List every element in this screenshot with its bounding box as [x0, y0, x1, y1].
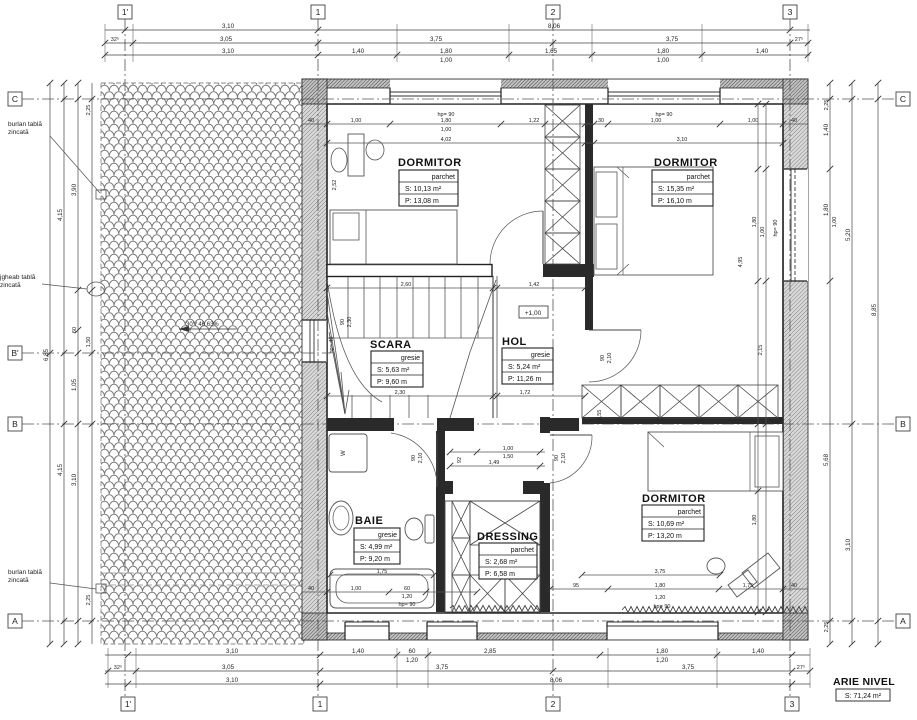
- svg-text:2,25: 2,25: [86, 105, 92, 116]
- grid marker 3 bottom: [785, 697, 799, 711]
- svg-text:B: B: [12, 419, 18, 429]
- svg-text:92: 92: [457, 457, 463, 463]
- shower/washing baie: [329, 434, 367, 472]
- svg-text:hp= 90: hp= 90: [438, 112, 455, 118]
- door baie: [436, 433, 438, 487]
- svg-text:S: 10,69 m²: S: 10,69 m²: [648, 521, 685, 528]
- svg-text:60: 60: [404, 586, 410, 592]
- svg-text:60: 60: [409, 648, 416, 655]
- svg-text:90: 90: [600, 355, 606, 361]
- svg-text:1,72: 1,72: [520, 390, 531, 396]
- gutter jgheab symbol: [87, 282, 105, 296]
- svg-text:1,40: 1,40: [352, 648, 365, 655]
- svg-text:2: 2: [551, 699, 556, 709]
- grid marker C left: [8, 92, 22, 106]
- svg-text:90: 90: [411, 455, 417, 461]
- svg-text:1,00: 1,00: [651, 118, 662, 124]
- grid marker 1 bottom: [313, 697, 327, 711]
- svg-text:40: 40: [308, 586, 314, 592]
- svg-text:90: 90: [554, 455, 560, 461]
- svg-text:burlan tablă: burlan tablă: [8, 569, 42, 576]
- dim row top 2: [105, 42, 810, 44]
- grid marker B right: [896, 417, 910, 431]
- svg-text:1,00: 1,00: [748, 118, 759, 124]
- interior wall scara south / baie north: [327, 418, 394, 431]
- svg-text:8,06: 8,06: [548, 23, 561, 30]
- desk bedroom1: [348, 134, 364, 176]
- grid line 3: [789, 19, 791, 697]
- svg-text:1': 1': [122, 7, 129, 17]
- svg-text:5,68: 5,68: [823, 453, 830, 466]
- dim row top 3: [105, 54, 810, 56]
- svg-text:3,75: 3,75: [655, 569, 666, 575]
- grid marker A left: [8, 614, 22, 628]
- svg-text:1,50: 1,50: [503, 454, 514, 460]
- svg-text:2,15: 2,15: [758, 345, 764, 356]
- svg-text:jgheab tablă: jgheab tablă: [0, 274, 36, 281]
- toilet baie: [425, 515, 434, 543]
- svg-text:zincată: zincată: [8, 577, 29, 584]
- svg-text:1,80: 1,80: [823, 203, 830, 216]
- door bedroom3: [550, 434, 592, 436]
- svg-text:2,60: 2,60: [401, 282, 412, 288]
- svg-text:6,85: 6,85: [43, 348, 50, 361]
- wall inner faces: [327, 103, 783, 105]
- svg-text:hp= 90: hp= 90: [656, 112, 673, 118]
- svg-text:1: 1: [316, 7, 321, 17]
- svg-text:parchet: parchet: [432, 174, 455, 181]
- svg-text:1,05: 1,05: [71, 378, 78, 391]
- svg-text:zincată: zincată: [0, 282, 21, 289]
- window top wall W1: [390, 80, 501, 104]
- svg-text:3,90: 3,90: [71, 183, 78, 196]
- svg-text:1,80: 1,80: [657, 48, 670, 55]
- svg-text:2,30: 2,30: [347, 317, 353, 328]
- svg-text:HOL: HOL: [502, 336, 527, 348]
- svg-text:S: 71,24 m²: S: 71,24 m²: [845, 693, 882, 700]
- svg-text:2,10: 2,10: [418, 453, 424, 464]
- svg-text:95: 95: [573, 583, 579, 589]
- staircase SCARA steps: [327, 277, 496, 418]
- svg-text:3: 3: [788, 7, 793, 17]
- svg-text:B: B: [900, 419, 906, 429]
- svg-text:S: 4,99 m²: S: 4,99 m²: [360, 544, 393, 551]
- wall corner top-left: [302, 79, 327, 104]
- dressing closets: [445, 501, 540, 612]
- interior wall bedroom1 south right part: [543, 264, 594, 277]
- svg-text:32⁵: 32⁵: [111, 36, 119, 43]
- dim row bottom 3: [105, 683, 810, 685]
- svg-text:P: 16,10 m: P: 16,10 m: [658, 198, 692, 205]
- svg-text:5,20: 5,20: [845, 228, 852, 241]
- svg-text:S: 10,13 m²: S: 10,13 m²: [405, 186, 442, 193]
- window left wall W7: [303, 320, 327, 362]
- svg-text:4,15: 4,15: [57, 463, 64, 476]
- svg-text:3,75: 3,75: [682, 664, 695, 671]
- svg-text:1,20: 1,20: [402, 594, 413, 600]
- svg-text:C: C: [900, 94, 906, 104]
- roof eave dashed lines: [101, 572, 304, 574]
- door bedroom2: [589, 329, 641, 331]
- exterior wall top band: [302, 79, 808, 88]
- svg-text:32⁵: 32⁵: [114, 664, 122, 671]
- svg-text:P: 13,08 m: P: 13,08 m: [405, 198, 439, 205]
- svg-text:2,10: 2,10: [561, 453, 567, 464]
- svg-text:1,00: 1,00: [440, 57, 453, 64]
- svg-text:30°/ 46,63%: 30°/ 46,63%: [186, 322, 219, 328]
- grid line A: [22, 620, 896, 622]
- svg-text:parchet: parchet: [678, 509, 701, 516]
- svg-text:40: 40: [308, 118, 314, 124]
- svg-text:1,20: 1,20: [656, 657, 669, 664]
- svg-text:burlan tablă: burlan tablă: [8, 121, 42, 128]
- exterior wall bottom band: [302, 633, 808, 640]
- svg-text:3,55: 3,55: [597, 410, 603, 421]
- bed bedroom3: [648, 432, 783, 491]
- grid line C: [22, 98, 896, 100]
- svg-text:3,10: 3,10: [71, 473, 78, 486]
- roof slope arrow 30deg: [179, 322, 236, 332]
- svg-text:3,10: 3,10: [677, 137, 688, 143]
- interior wall dressing north: [437, 481, 453, 494]
- svg-text:S: 5,24 m²: S: 5,24 m²: [508, 364, 541, 371]
- svg-text:3,10: 3,10: [845, 538, 852, 551]
- dim row bottom 2: [105, 670, 810, 672]
- svg-text:1,40: 1,40: [352, 48, 365, 55]
- dim columns right: [829, 83, 831, 644]
- svg-text:40: 40: [791, 118, 797, 124]
- wall corner top-right: [783, 79, 808, 104]
- dim extension verticals bottom: [108, 648, 810, 688]
- svg-text:3,10: 3,10: [226, 648, 239, 655]
- zigzag insulation bottom-right: [622, 607, 808, 613]
- svg-text:P: 13,20 m: P: 13,20 m: [648, 533, 682, 540]
- svg-text:S: 5,63 m²: S: 5,63 m²: [377, 367, 410, 374]
- svg-text:90: 90: [340, 319, 346, 325]
- grid marker 1 top: [311, 5, 325, 19]
- bed bedroom1: [330, 210, 457, 264]
- svg-text:1,75: 1,75: [377, 569, 388, 575]
- roof hatched area: [101, 83, 304, 644]
- svg-text:1,00: 1,00: [760, 227, 766, 238]
- svg-text:zincată: zincată: [8, 129, 29, 136]
- svg-text:P: 9,20 m: P: 9,20 m: [360, 556, 390, 563]
- svg-text:3,10: 3,10: [226, 677, 239, 684]
- svg-text:3,10: 3,10: [222, 23, 235, 30]
- svg-text:1,49: 1,49: [489, 460, 500, 466]
- grid line 2: [552, 19, 554, 697]
- grid marker 1' bottom: [121, 697, 135, 711]
- svg-text:2: 2: [551, 7, 556, 17]
- exterior wall left: [302, 88, 327, 640]
- dim row bottom 1: [105, 654, 810, 656]
- wardrobe bedroom1 (X cells): [545, 105, 580, 137]
- svg-text:8,06: 8,06: [550, 677, 563, 684]
- svg-text:3,75: 3,75: [666, 36, 679, 43]
- svg-text:3,05: 3,05: [222, 664, 235, 671]
- grid line B: [22, 423, 896, 425]
- grid line 1: [317, 19, 319, 697]
- wall corner bottom-right: [783, 613, 808, 640]
- inner dim corridor: [450, 451, 545, 453]
- inner dim row rooms top: [302, 123, 808, 125]
- grid marker A right: [896, 614, 910, 628]
- svg-text:1,20: 1,20: [406, 657, 419, 664]
- svg-text:4,15: 4,15: [57, 208, 64, 221]
- svg-text:BAIE: BAIE: [355, 515, 383, 527]
- svg-text:1,00: 1,00: [351, 586, 362, 592]
- grid marker 2 bottom: [546, 697, 560, 711]
- exterior wall right: [783, 88, 808, 640]
- svg-text:1,00: 1,00: [441, 127, 452, 133]
- grid marker B' left: [8, 346, 22, 360]
- svg-text:2,10: 2,10: [607, 353, 613, 364]
- svg-text:DORMITOR: DORMITOR: [398, 157, 462, 169]
- svg-text:C: C: [12, 94, 18, 104]
- svg-text:parchet: parchet: [687, 174, 710, 181]
- svg-text:2,85: 2,85: [484, 648, 497, 655]
- svg-text:30: 30: [598, 118, 604, 124]
- svg-text:1,00: 1,00: [832, 217, 838, 228]
- interior wall between bedrooms vertical: [585, 104, 593, 330]
- svg-text:1,00: 1,00: [351, 118, 362, 124]
- window bottom wall W3: [345, 614, 389, 640]
- inner dim baie: [330, 574, 434, 576]
- svg-text:3,75: 3,75: [430, 36, 443, 43]
- svg-text:4,02: 4,02: [441, 137, 452, 143]
- grid marker B left: [8, 417, 22, 431]
- svg-text:A: A: [12, 616, 18, 626]
- sink baie: [329, 501, 353, 535]
- grid marker 3 top: [783, 5, 797, 19]
- zigzag insulation dressing: [450, 606, 540, 612]
- svg-text:8,85: 8,85: [871, 303, 878, 316]
- svg-text:ARIE NIVEL: ARIE NIVEL: [833, 676, 895, 688]
- wall corner bottom-left: [302, 613, 327, 640]
- svg-text:1,20: 1,20: [655, 595, 666, 601]
- svg-text:gresie: gresie: [378, 532, 397, 539]
- svg-text:3,75: 3,75: [436, 664, 449, 671]
- svg-text:1,40: 1,40: [756, 48, 769, 55]
- svg-text:2,52: 2,52: [332, 180, 338, 191]
- svg-text:3: 3: [790, 699, 795, 709]
- svg-text:hp= 90: hp= 90: [773, 220, 779, 237]
- svg-text:gresie: gresie: [531, 352, 550, 359]
- svg-text:1,50: 1,50: [86, 337, 92, 348]
- window bottom wall W5: [607, 614, 718, 640]
- svg-text:3,10: 3,10: [222, 48, 235, 55]
- svg-text:gresie: gresie: [401, 355, 420, 362]
- svg-text:P: 9,60 m: P: 9,60 m: [377, 379, 407, 386]
- dim row top 1: [105, 29, 810, 31]
- desk bedroom3: [707, 553, 780, 597]
- interior wall wardrobe south: [582, 417, 783, 424]
- grid line B prime: [22, 352, 330, 354]
- grid marker C right: [896, 92, 910, 106]
- svg-text:DRESSING: DRESSING: [477, 531, 538, 543]
- svg-text:SCARA: SCARA: [370, 339, 412, 351]
- svg-text:40: 40: [791, 583, 797, 589]
- svg-text:1,80: 1,80: [656, 648, 669, 655]
- grid line 1': [124, 19, 126, 697]
- svg-text:3,05: 3,05: [220, 36, 233, 43]
- svg-text:P: 11,26 m: P: 11,26 m: [508, 376, 542, 383]
- svg-text:1,80: 1,80: [440, 48, 453, 55]
- svg-text:1,80: 1,80: [752, 515, 758, 526]
- window right wall W8: [784, 169, 808, 281]
- downspout symbols: [96, 190, 106, 199]
- grid marker 2 top: [546, 5, 560, 19]
- svg-text:hp= 40: hp= 40: [329, 337, 335, 354]
- level marker +1.00: [519, 306, 548, 318]
- svg-text:1,75: 1,75: [743, 583, 754, 589]
- svg-text:2,25: 2,25: [824, 622, 830, 633]
- svg-text:1: 1: [318, 699, 323, 709]
- svg-text:1,42: 1,42: [529, 282, 540, 288]
- bed bedroom2: [594, 167, 713, 275]
- svg-text:60: 60: [72, 327, 78, 333]
- svg-text:P: 6,58 m: P: 6,58 m: [485, 571, 515, 578]
- svg-text:1,80: 1,80: [441, 118, 452, 124]
- stair balustrade line: [492, 276, 494, 418]
- svg-text:B': B': [11, 348, 19, 358]
- interior wall baie east: [436, 431, 445, 612]
- svg-text:2,25: 2,25: [824, 100, 830, 111]
- svg-text:1,40: 1,40: [823, 123, 830, 136]
- svg-text:2,30: 2,30: [395, 390, 406, 396]
- grid marker 1' top: [118, 5, 132, 19]
- door bedroom1: [542, 211, 544, 264]
- window bottom wall W4: [427, 614, 477, 640]
- svg-text:parchet: parchet: [511, 547, 534, 554]
- svg-text:2,25: 2,25: [86, 595, 92, 606]
- svg-text:27⁵: 27⁵: [795, 36, 803, 43]
- window top wall W2: [608, 80, 720, 104]
- svg-text:W: W: [341, 450, 347, 456]
- svg-text:1,00: 1,00: [657, 57, 670, 64]
- svg-text:S: 15,35 m²: S: 15,35 m²: [658, 186, 695, 193]
- dim extension verticals top: [105, 24, 808, 62]
- svg-text:1,80: 1,80: [655, 583, 666, 589]
- svg-text:27⁵: 27⁵: [797, 664, 805, 671]
- svg-text:DORMITOR: DORMITOR: [642, 493, 706, 505]
- inner vertical dims right rooms: [757, 104, 759, 612]
- inner dim row 4.02: [327, 142, 783, 144]
- svg-text:1': 1': [125, 699, 132, 709]
- interior wall bedroom1 south left part: [327, 265, 492, 277]
- svg-text:1,00: 1,00: [503, 446, 514, 452]
- svg-text:1,80: 1,80: [752, 217, 758, 228]
- inner dim bedroom3: [582, 574, 720, 576]
- svg-text:A: A: [900, 616, 906, 626]
- svg-text:S: 2,68 m²: S: 2,68 m²: [485, 559, 518, 566]
- svg-text:hp= 90: hp= 90: [399, 602, 416, 608]
- interior wall dressing east: [540, 483, 550, 612]
- svg-text:1,65: 1,65: [545, 48, 558, 55]
- svg-text:4,95: 4,95: [738, 257, 744, 268]
- svg-text:1,22: 1,22: [529, 118, 540, 124]
- svg-text:DORMITOR: DORMITOR: [654, 157, 718, 169]
- svg-text:1,40: 1,40: [752, 648, 765, 655]
- wardrobe corridor horizontal (X cells): [582, 385, 621, 418]
- dim columns left: [49, 83, 51, 644]
- svg-text:+1,00: +1,00: [525, 310, 542, 317]
- svg-text:hp= 90: hp= 90: [654, 604, 671, 610]
- bathtub baie: [330, 569, 434, 608]
- inner dim row scara/hol: [327, 287, 585, 289]
